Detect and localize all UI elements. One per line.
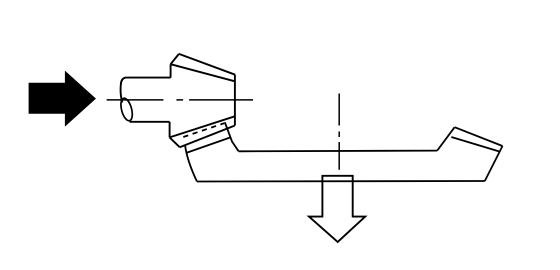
taper cone lower step [169, 122, 171, 138]
arm left tip edge [185, 145, 197, 182]
taper cone upper step [170, 64, 172, 77]
arm right end edge [485, 146, 503, 181]
stud cylinder bottom edge [130, 121, 170, 123]
arm top edge [239, 150, 438, 153]
extraction direction arrow (hollow, pointing down) [309, 176, 365, 242]
arm right flange lower edge [451, 137, 500, 152]
horizontal centerline (dash-dot) [107, 99, 253, 101]
taper cone right edge [234, 75, 236, 126]
stud cylinder body [121, 78, 171, 103]
stud end loop (ellipse) [119, 97, 135, 122]
vertical centerline (dash-dot) [338, 94, 340, 170]
hidden taper edge (dashed) [183, 123, 224, 137]
taper cone top far edge [179, 54, 235, 75]
arm right flange upper edge [455, 127, 503, 146]
arm left boss upper edge [187, 137, 231, 152]
arm right bend edge [437, 127, 454, 150]
arm bottom edge [197, 180, 485, 183]
taper cone top ridge [171, 54, 179, 64]
taper cone top near edge [171, 64, 235, 81]
arm left bend edge [225, 122, 239, 151]
taper cone bottom near edge [180, 126, 235, 148]
taper cone bottom ridge [170, 137, 180, 147]
press direction arrow (solid black, pointing right) [29, 72, 95, 126]
taper cone bottom silhouette edge [170, 116, 235, 137]
